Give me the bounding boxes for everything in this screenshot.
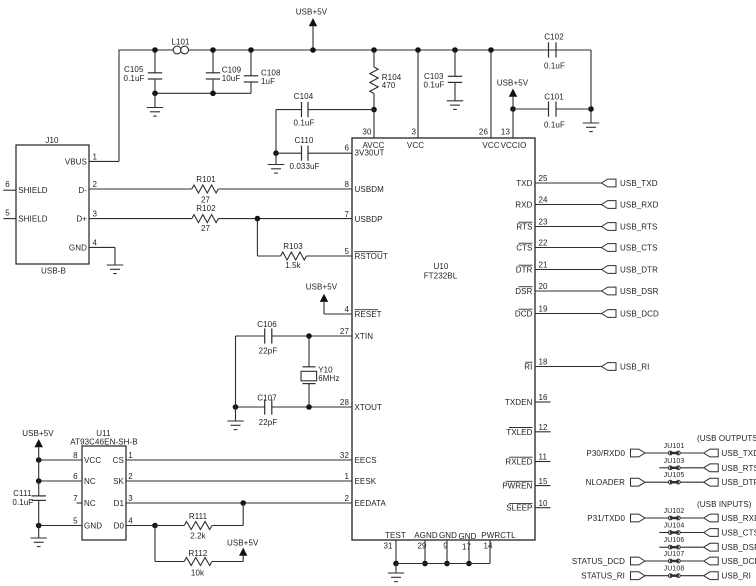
svg-text:USB_DCD: USB_DCD [722,557,756,566]
pin 23 RTS label [516,218,548,232]
resistor R104 [370,50,402,110]
svg-text:0.1uF: 0.1uF [544,62,565,71]
svg-text:PWRCTL: PWRCTL [481,531,516,540]
pin 7 NC U11 [73,494,96,508]
svg-text:27: 27 [340,327,350,336]
svg-text:USB_RXD: USB_RXD [722,514,756,523]
svg-text:USBDM: USBDM [355,185,385,194]
resistor R102 [192,204,219,233]
svg-text:R103: R103 [283,242,303,251]
connector J10 USB-B body [16,136,89,276]
svg-text:12: 12 [539,423,549,432]
capacitor C105 [124,50,163,93]
svg-text:GND: GND [69,243,87,252]
resistor R112 [155,526,243,578]
svg-text:STATUS_RI: STATUS_RI [581,572,625,581]
svg-text:1: 1 [344,472,349,481]
svg-text:21: 21 [539,261,549,270]
svg-text:D+: D+ [76,215,87,224]
svg-text:RESET: RESET [355,310,382,319]
svg-text:2: 2 [344,494,349,503]
svg-text:JU107: JU107 [664,551,685,558]
svg-text:RSTOUT: RSTOUT [355,252,388,261]
svg-text:EESK: EESK [355,477,377,486]
svg-text:USB_RI: USB_RI [620,363,650,372]
svg-text:2: 2 [93,180,98,189]
svg-text:10: 10 [539,499,549,508]
svg-text:0.1uF: 0.1uF [424,81,445,90]
svg-text:USB+5V: USB+5V [296,8,328,17]
svg-text:6: 6 [5,180,10,189]
svg-text:8: 8 [344,180,349,189]
node USB_DCD output [535,310,659,319]
svg-text:USB_RI: USB_RI [722,572,752,581]
svg-text:CS: CS [113,456,124,465]
svg-text:C110: C110 [295,136,314,145]
svg-text:VCC: VCC [482,141,499,150]
svg-text:GND: GND [84,522,102,531]
pin 3 D+ label [76,210,97,224]
svg-text:30: 30 [362,128,372,137]
svg-text:1uF: 1uF [261,77,275,86]
svg-text:31: 31 [383,542,393,551]
svg-text:470: 470 [382,81,396,90]
svg-text:10k: 10k [191,569,205,578]
node USB_DTR output [535,266,658,275]
svg-text:0.1uF: 0.1uF [544,120,565,129]
power USB+5V R112 [227,538,259,561]
svg-text:CTS: CTS [516,244,532,253]
svg-text:USB_RTS: USB_RTS [620,223,657,232]
wire cap ground bus [152,91,251,97]
svg-text:6MHz: 6MHz [318,374,339,383]
svg-text:RI: RI [524,363,532,372]
svg-text:EEDATA: EEDATA [355,499,387,508]
svg-text:3: 3 [411,128,416,137]
wire USBDP net [89,216,352,222]
svg-text:USB+5V: USB+5V [497,78,529,87]
capacitor C110 [276,136,352,171]
power USB+5V U11 [22,429,54,460]
svg-text:22pF: 22pF [259,418,278,427]
node bottom pin labels U10 [385,531,516,541]
svg-text:JU101: JU101 [664,443,685,450]
svg-text:0.033uF: 0.033uF [289,162,319,171]
ground right of C101 [583,123,599,132]
svg-text:VCC: VCC [84,456,101,465]
pin 20 DSR label [515,282,548,296]
pin 19 DCD label [515,305,548,319]
pin 3 D1 U11 [114,494,134,508]
wire XTIN net [236,333,353,339]
svg-text:USB_TXD: USB_TXD [722,449,756,458]
node USB_RTS output [535,223,657,232]
wire AGND pin 29 [422,540,428,566]
svg-text:3: 3 [128,494,133,503]
svg-text:NC: NC [84,477,96,486]
pin 5 SHIELD [3,208,48,223]
ground under C110 [268,153,284,173]
svg-text:24: 24 [539,196,549,205]
ground U10 bottom [388,564,404,582]
svg-text:USB_DTR: USB_DTR [722,478,756,487]
svg-text:USBDP: USBDP [355,215,383,224]
svg-text:22: 22 [539,239,549,248]
capacitor C106 [257,320,277,356]
svg-text:C104: C104 [294,92,314,101]
wire stub pin [535,507,551,509]
pin 26 number [479,128,489,137]
svg-text:26: 26 [479,128,489,137]
svg-text:20: 20 [539,282,549,291]
pin 32 EECS label [340,451,377,465]
pin 14 number [483,542,493,551]
svg-text:25: 25 [539,174,549,183]
svg-text:(USB OUTPUTS): (USB OUTPUTS) [697,434,756,443]
pin 3 number [411,128,416,137]
node USB_RXD output [535,201,659,210]
svg-text:TXLED: TXLED [506,428,532,437]
svg-text:USB_DCD: USB_DCD [620,310,659,319]
svg-text:D1: D1 [114,499,125,508]
node USB_DSR output [535,287,659,296]
pin 25 TXD label [516,174,548,188]
svg-text:15: 15 [539,477,549,486]
pin 12 TXLED label [506,423,548,437]
node AVCC junction [371,107,377,139]
pin 2 SK U11 [113,472,133,486]
node USB_CTS output [535,244,658,253]
svg-text:0.1uF: 0.1uF [12,498,33,507]
svg-text:JU105: JU105 [664,472,685,479]
svg-text:32: 32 [340,451,350,460]
wire U11 left bus [38,460,40,538]
wire stub pin [535,401,551,403]
svg-text:16: 16 [539,393,549,402]
svg-text:0.1uF: 0.1uF [124,74,145,83]
wire VCC to pin 26 [490,50,492,139]
pin 1 CS U11 [113,451,134,465]
svg-text:1: 1 [93,153,98,162]
power USB+5V VCCIO [497,78,529,138]
svg-text:5: 5 [5,208,10,217]
svg-text:3: 3 [93,210,98,219]
svg-text:SHIELD: SHIELD [18,215,48,224]
wire EECS net [126,459,352,461]
svg-text:D0: D0 [114,522,125,531]
svg-text:JU102: JU102 [664,508,685,515]
svg-text:J10: J10 [45,136,59,145]
resistor R101 [192,175,219,204]
pin 15 PWREN label [502,477,548,491]
wire PWRCTL pin 14 [396,540,490,564]
pin 6 NC U11 [36,472,96,486]
pin 9 number [443,542,448,551]
svg-text:27: 27 [201,196,211,205]
pin 2 EEDATA label [344,494,386,508]
resistor R111 [155,503,243,541]
svg-text:USB_RXD: USB_RXD [620,201,659,210]
pin 16 TXDEN label [505,393,548,407]
wire crystal left leg [235,336,237,421]
capacitor C102 [544,33,591,71]
svg-text:10uF: 10uF [222,74,241,83]
svg-text:USB_CTS: USB_CTS [722,529,756,538]
svg-text:NC: NC [84,499,96,508]
inductor L101 [171,38,190,54]
crystal Y10 6MHz [301,336,339,407]
svg-text:TXD: TXD [516,179,532,188]
pin 21 DTR label [516,261,548,275]
svg-text:NLOADER: NLOADER [586,478,625,487]
svg-text:C106: C106 [257,320,277,329]
svg-text:USB_TXD: USB_TXD [620,179,658,188]
svg-text:4: 4 [344,305,349,314]
ground crystal [227,421,243,430]
ground under C105 bus [147,93,163,116]
svg-text:3V30UT: 3V30UT [355,149,385,158]
op-amp U10 FT232BL body [352,138,535,540]
wire top power rail [119,49,591,51]
pin 13 number [501,128,511,137]
svg-text:SK: SK [113,477,124,486]
svg-text:TXDEN: TXDEN [505,398,533,407]
wire USBDM net [89,188,352,190]
jumper JU103 row [659,458,756,473]
node VBUS rail junctions [152,47,494,53]
svg-text:JU103: JU103 [664,458,685,465]
svg-text:R101: R101 [196,175,216,184]
wire VCC to pin 3 [417,50,419,139]
svg-text:4: 4 [128,517,133,526]
pin 29 number [417,542,427,551]
svg-text:FT232BL: FT232BL [424,271,458,280]
capacitor C101 [513,93,591,130]
capacitor C109 [206,50,242,93]
pin 2 D- label [78,180,97,195]
wire EEDATA net [126,500,352,506]
svg-text:17: 17 [462,543,472,552]
svg-text:C101: C101 [544,93,564,102]
wire GND pin 9 [444,540,450,566]
svg-text:28: 28 [340,398,350,407]
svg-text:23: 23 [539,218,549,227]
svg-text:1.5k: 1.5k [285,261,301,270]
jumper JU104 row [659,523,756,538]
pin 18 RI label [524,358,548,372]
jumper JU107 row [572,551,756,566]
wire XTOUT net [233,404,352,410]
jumper JU102 row [587,508,756,523]
svg-text:USB-B: USB-B [41,267,66,276]
svg-text:VCCIO: VCCIO [501,141,527,150]
svg-text:USB_DSR: USB_DSR [620,287,659,296]
svg-text:2.2k: 2.2k [190,532,206,541]
svg-text:VCC: VCC [407,141,424,150]
svg-text:29: 29 [417,542,427,551]
svg-text:USB+5V: USB+5V [22,429,54,438]
pin 27 XTIN label [340,327,373,341]
power USB+5V RESET [306,283,352,314]
pin 1 VBUS label [65,153,98,167]
svg-text:8: 8 [73,451,78,460]
svg-text:L101: L101 [171,38,190,47]
power USB+5V top [296,8,328,51]
wire J10 GND [89,247,115,265]
pin 6 SHIELD [3,180,48,195]
svg-text:R111: R111 [189,512,208,521]
svg-text:14: 14 [483,542,493,551]
pin 4 D0 U11 [114,517,134,531]
svg-text:13: 13 [501,128,511,137]
pin 7 USBDP label [344,210,382,224]
wire TEST pin 31 [393,540,399,566]
svg-text:PWREN: PWREN [502,482,532,491]
pin 5 GND U11 [36,517,102,531]
svg-text:JU104: JU104 [664,523,685,530]
svg-text:P30/RXD0: P30/RXD0 [586,449,625,458]
svg-text:STATUS_DCD: STATUS_DCD [572,557,625,566]
wire stub pin [535,431,551,433]
wire GND pin 17 [466,540,472,566]
pin 28 XTOUT label [340,398,382,412]
node top pin labels U10 [362,141,526,150]
svg-text:5: 5 [344,247,349,256]
pin 30 number [362,128,372,137]
svg-text:JU108: JU108 [664,566,685,573]
pin 8 USBDM label [344,180,384,194]
svg-text:DTR: DTR [516,266,533,275]
svg-text:XTIN: XTIN [355,332,374,341]
ground J10 [107,265,123,274]
svg-text:C105: C105 [124,65,144,74]
svg-text:19: 19 [539,305,549,314]
svg-text:DSR: DSR [515,287,532,296]
pin 4 GND label [69,238,98,252]
svg-text:C107: C107 [257,394,277,403]
svg-text:27: 27 [201,224,211,233]
svg-text:EECS: EECS [355,456,377,465]
svg-text:C102: C102 [544,33,564,42]
svg-text:P31/TXD0: P31/TXD0 [587,514,625,523]
svg-text:GND: GND [458,532,476,541]
pin 22 CTS label [516,239,548,253]
jumper JU106 row [659,537,756,552]
svg-text:USB_RTS: USB_RTS [722,464,756,473]
capacitor C104 [276,92,374,128]
capacitor C107 [257,394,277,428]
ground under C103 [447,101,463,110]
svg-text:RXD: RXD [515,201,532,210]
svg-text:USB+5V: USB+5V [227,538,259,547]
node header USB OUTPUTS [697,434,756,443]
svg-text:6: 6 [344,144,349,153]
svg-text:DCD: DCD [515,310,533,319]
svg-text:SLEEP: SLEEP [506,504,532,513]
svg-text:USB_CTS: USB_CTS [620,244,658,253]
svg-text:XTOUT: XTOUT [355,403,382,412]
wire D0 net [126,523,158,529]
svg-text:USB+5V: USB+5V [306,283,338,292]
node USB_TXD output [535,179,658,188]
ground U11 [31,538,47,547]
jumper JU105 row [586,472,756,487]
resistor R103 [281,242,307,270]
pin 17 number [462,543,472,552]
node header USB INPUTS [697,500,752,509]
pin 31 number [383,542,393,551]
svg-text:USB_DTR: USB_DTR [620,266,658,275]
svg-text:RTS: RTS [516,223,532,232]
pin 4 RESET label [344,305,381,319]
svg-text:18: 18 [539,358,549,367]
svg-text:(USB INPUTS): (USB INPUTS) [697,500,752,509]
wire stub pin [535,485,551,487]
svg-text:5: 5 [73,517,78,526]
svg-text:4: 4 [93,238,98,247]
jumper JU101 row [586,443,756,458]
wire stub pin [535,461,551,463]
capacitor C111 [12,489,46,507]
pin 6 3V30UT label [344,144,384,158]
wire C102 right drop [588,50,594,123]
svg-text:U10: U10 [434,262,449,271]
svg-text:0.1uF: 0.1uF [294,119,315,128]
svg-text:TEST: TEST [385,531,406,540]
svg-text:R102: R102 [196,204,216,213]
capacitor C108 [244,50,281,93]
pin 24 RXD label [515,196,548,210]
eeprom U11 AT93C46 body [70,429,138,540]
svg-text:AGND: AGND [414,531,438,540]
wire C104 to C110 [273,110,279,156]
svg-text:7: 7 [73,494,78,503]
pin 1 EESK label [344,472,376,486]
svg-text:D-: D- [78,186,87,195]
svg-text:USB_DSR: USB_DSR [722,543,756,552]
capacitor C103 [424,50,463,101]
svg-text:6: 6 [73,472,78,481]
svg-text:1: 1 [128,451,133,460]
pin 8 VCC U11 [36,451,101,465]
pin 10 SLEEP label [506,499,548,513]
svg-text:RXLED: RXLED [505,458,532,467]
svg-text:JU106: JU106 [664,537,685,544]
wire RSTOUT net [257,219,352,256]
wire VBUS drop to J10 [89,50,119,162]
jumper JU108 row [581,566,751,581]
svg-text:VBUS: VBUS [65,157,87,166]
svg-text:SHIELD: SHIELD [18,186,48,195]
svg-text:22pF: 22pF [259,347,278,356]
svg-text:2: 2 [128,472,133,481]
wire EESK net [126,480,352,482]
svg-text:GND: GND [439,531,457,540]
svg-text:R112: R112 [189,549,208,558]
pin 5 RSTOUT label [344,247,387,261]
pin 11 RXLED label [505,453,547,467]
svg-text:AT93C46EN-SH-B: AT93C46EN-SH-B [70,437,138,446]
svg-text:11: 11 [539,453,548,462]
node USB_RI output [535,363,650,372]
svg-text:7: 7 [344,210,349,219]
